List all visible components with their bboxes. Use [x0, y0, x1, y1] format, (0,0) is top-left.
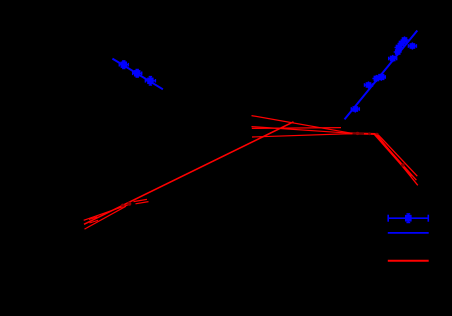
red main fit line: [84, 122, 294, 225]
blue data point B11: [401, 36, 409, 43]
red fan line 2b: [252, 127, 341, 130]
red descending line d4: [378, 135, 417, 176]
red data blob D2: [127, 202, 131, 206]
blue data point B12 outlier: [408, 42, 416, 49]
red plateau blob P4: [368, 132, 371, 135]
blue data point B2: [133, 70, 142, 78]
legend blue errorbar left cap: [387, 215, 389, 222]
red fan line 2: [252, 127, 353, 134]
legend blue fit line sample: [388, 232, 429, 234]
blue data point B9: [394, 48, 402, 55]
red descending line d2: [375, 134, 416, 180]
red plateau segment: [345, 132, 377, 135]
red tick mark t2: [90, 220, 99, 223]
red data blob D1: [121, 204, 125, 208]
red side fit line lower-left b: [85, 206, 127, 229]
red tick mark t1: [89, 217, 98, 220]
blue data point B3: [145, 77, 155, 85]
legend red fit line sample: [388, 260, 429, 262]
red side fit line lower-left a: [84, 204, 131, 221]
red descending line d3: [377, 135, 418, 186]
blue data point B5: [365, 81, 373, 88]
red plateau dark data strip: [353, 132, 365, 135]
blue fit line left: [112, 59, 162, 90]
red descending line d1: [374, 134, 412, 177]
red plateau blob P3: [356, 132, 359, 135]
blue data point B4: [351, 105, 359, 112]
legend blue errorbar line: [388, 217, 428, 219]
blue data point B7: [377, 73, 385, 81]
red error bar e2: [136, 202, 149, 204]
blue data point B1: [119, 61, 128, 69]
red descent blob: [401, 163, 405, 167]
legend blue marker square: [406, 214, 411, 223]
blue fit line right: [345, 31, 418, 120]
red error bar e1: [134, 199, 148, 201]
blue data point B6: [372, 75, 380, 82]
red fan line 1: [252, 116, 353, 134]
blue data point B8: [389, 55, 397, 62]
legend blue errorbar right cap: [427, 215, 429, 222]
red plateau blob P5: [375, 133, 379, 137]
blue data point B10b: [395, 44, 403, 51]
blue data point B10: [398, 40, 406, 47]
red fan line 3: [252, 134, 352, 137]
